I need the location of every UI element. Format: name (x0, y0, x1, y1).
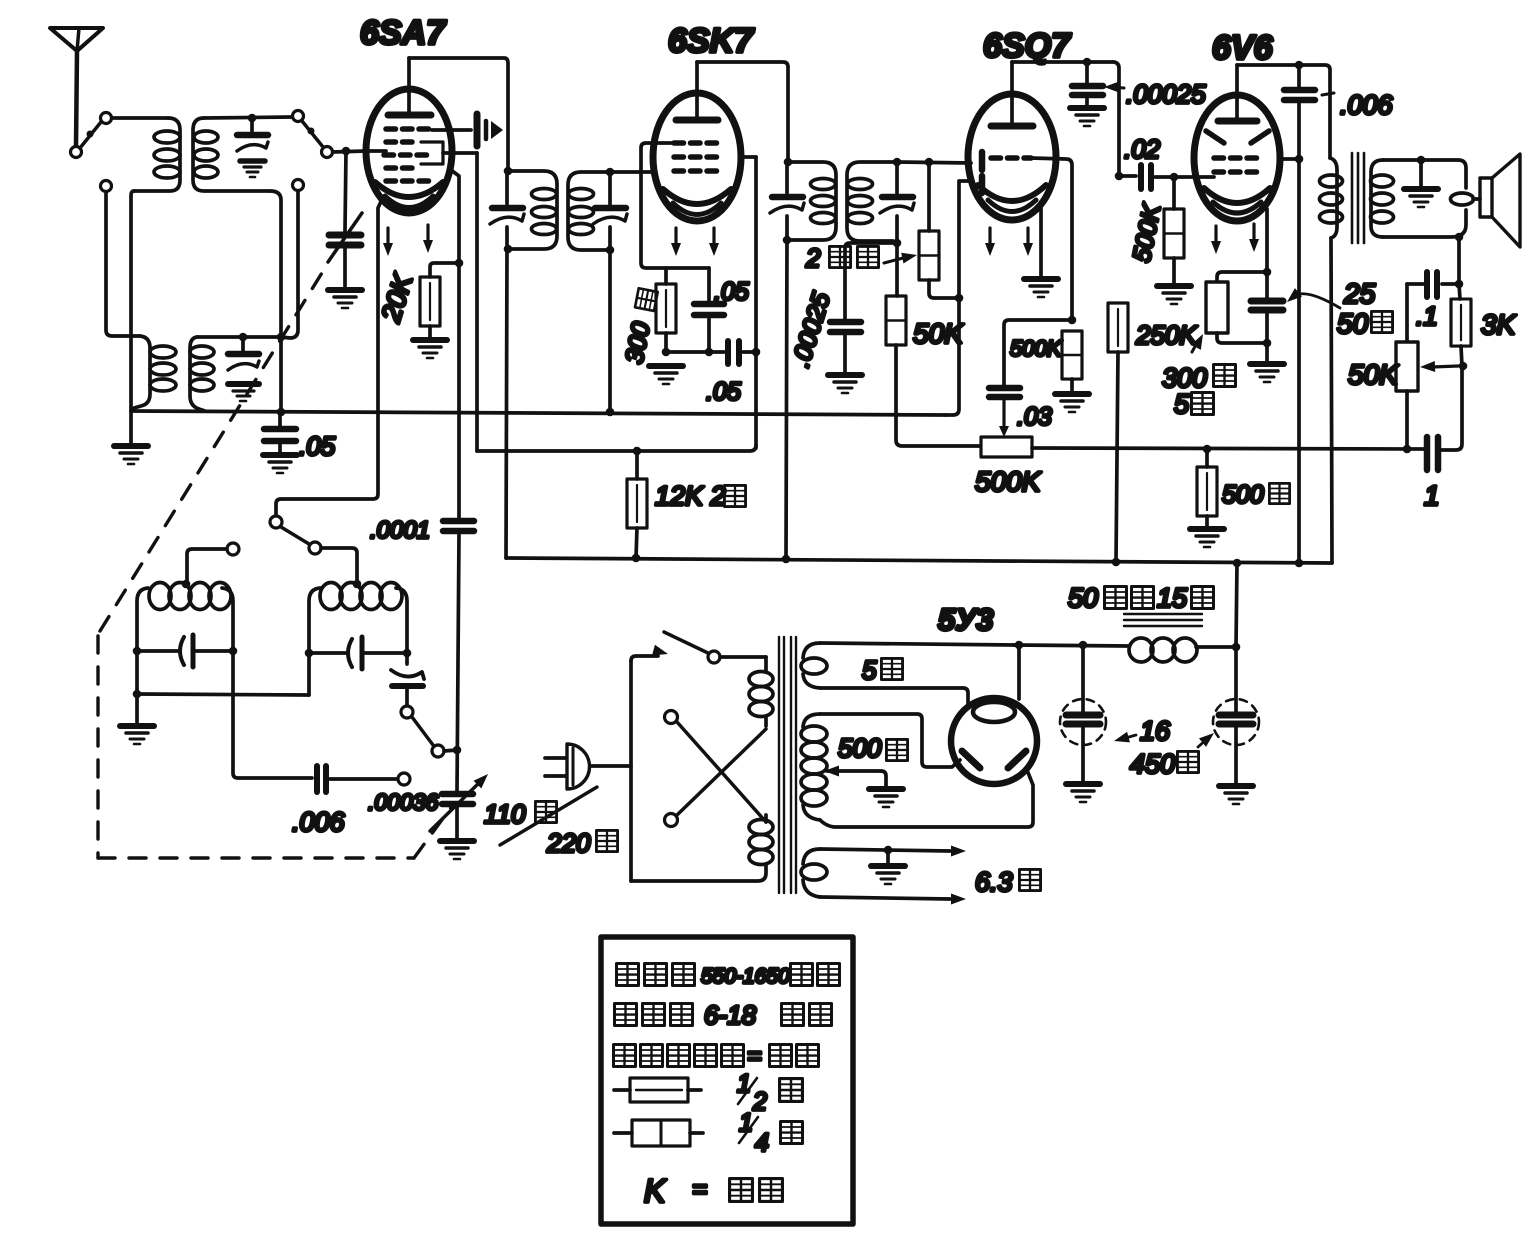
node grid junction (342, 147, 351, 156)
wire (455, 806, 459, 838)
resistor 500K grid leak (1062, 331, 1082, 379)
tube V4 cathode arcs (1204, 188, 1270, 213)
ground (328, 290, 362, 308)
label 110V (484, 799, 557, 829)
mains switch blade (664, 632, 708, 653)
capacitor 25uF/50V electrolytic (1251, 272, 1283, 343)
open contact (398, 773, 410, 785)
svg-text:.00025: .00025 (1126, 79, 1206, 109)
svg-text:2: 2 (752, 1088, 767, 1116)
wire to band contact (281, 191, 298, 338)
wire screen bus horizontal (477, 445, 756, 451)
node grid network junction (1068, 316, 1077, 325)
svg-text:450: 450 (1130, 749, 1175, 779)
variable capacitor MW osc tank (137, 635, 233, 667)
wire IF2 secondary to diode plate (897, 162, 971, 163)
capacitor .00025 RF filter (830, 322, 861, 372)
wire plate to IF1 (409, 58, 508, 171)
node IF1 primary bottom (504, 245, 513, 254)
node IF1 secondary bottom (606, 246, 615, 255)
wire IF1 secondary to 6SK7 grid (610, 170, 653, 174)
ground (1066, 784, 1100, 802)
svg-text:.05: .05 (714, 278, 749, 306)
tube V4 grid rows (1214, 158, 1260, 172)
svg-text:50K: 50K (1348, 359, 1399, 390)
IF2 primary trimmer capacitor (770, 162, 804, 240)
wire (1265, 343, 1269, 362)
wire to mains switch (631, 656, 658, 661)
node (1263, 268, 1272, 277)
wire (1461, 346, 1462, 366)
wire (1172, 258, 1176, 284)
wire (1459, 284, 1460, 299)
label 5V (862, 655, 903, 685)
wire 50K to volume pot (896, 345, 981, 446)
node 12K tap (633, 447, 642, 456)
oscillator switch MW contact (227, 543, 239, 555)
svg-text:.0001: .0001 (370, 517, 430, 544)
node (277, 333, 286, 342)
label 50mA 15H (1068, 583, 1214, 613)
band switch S1a blade (80, 122, 101, 148)
label 500 ohm (1222, 481, 1290, 509)
svg-text:50: 50 (1337, 308, 1369, 339)
ground (1157, 286, 1191, 304)
resistor 300 ohm (cathode) (656, 284, 676, 333)
mains switch pole (708, 651, 720, 663)
wire (444, 750, 457, 751)
wire (1070, 379, 1074, 392)
wire diode return to AVC bus (945, 298, 959, 415)
capacitor .05 AVC bypass (264, 412, 296, 453)
antenna terminal node (71, 147, 82, 158)
node (1015, 641, 1024, 650)
wire to SW osc coil (321, 548, 357, 582)
power transformer core (779, 637, 796, 893)
ground (440, 841, 474, 859)
tube V1 cathode arcs (375, 182, 443, 208)
svg-text:6SK7: 6SK7 (668, 22, 755, 60)
tube V1 grid lead (366, 149, 386, 153)
svg-text:550-1650: 550-1650 (701, 965, 790, 988)
wire plate top run (1012, 62, 1119, 176)
capacitor .03 coupling (989, 388, 1020, 437)
legend line 1: MW band 550-1650 kc (617, 964, 840, 989)
node (133, 690, 142, 699)
tube V3 cathode lead (1039, 207, 1043, 276)
node .02 tap (1115, 172, 1124, 181)
capacitor .02 coupling (1119, 165, 1194, 189)
wire oscillator switch pole lead (270, 516, 282, 528)
svg-text:500: 500 (1222, 481, 1264, 509)
antenna coil L2 secondary (SW) (190, 337, 214, 411)
svg-text:3K: 3K (1481, 309, 1517, 340)
node (1232, 643, 1241, 652)
output transformer secondary winding (1371, 160, 1394, 237)
wire SW secondary top (197, 335, 281, 339)
node (305, 649, 314, 658)
IF2 transformer primary winding (788, 162, 836, 240)
wire 300ohm top (664, 268, 668, 284)
voltage link X (665, 711, 767, 827)
wire (1205, 449, 1209, 467)
svg-text:500K: 500K (975, 466, 1042, 497)
tube V4 heater arrow (1211, 226, 1221, 254)
tube V4 beam plates (1206, 131, 1269, 143)
legend line 2: SW band 6-18 mc (615, 1000, 832, 1030)
tube V3 plate bar (991, 123, 1033, 130)
svg-text:250K: 250K (1135, 320, 1198, 350)
wire (720, 655, 766, 659)
resistor 50K (886, 296, 906, 345)
wire (1205, 516, 1209, 527)
trimmer capacitor SW osc (391, 653, 424, 706)
node (455, 259, 464, 268)
ground (1190, 529, 1224, 547)
output transformer core (1352, 153, 1364, 243)
capacitor .006 band pad (233, 651, 397, 792)
mains plug (545, 744, 631, 789)
node (1455, 233, 1464, 242)
tube V4 heater arrow (1249, 224, 1259, 252)
tube V2 cathode lead (641, 143, 709, 268)
terminal node (101, 181, 112, 192)
wire (106, 192, 140, 336)
wire 250K to B+ bus (1116, 352, 1118, 562)
tube V1 screen lead (443, 151, 477, 155)
legend quarter-watt resistor symbol (614, 1109, 803, 1157)
wire pot line right (1032, 448, 1424, 449)
node MW coil tap (182, 580, 191, 589)
ground (871, 850, 905, 884)
variable capacitor SW osc tank (309, 637, 407, 669)
IF2 secondary trimmer capacitor (880, 162, 914, 243)
wire plate to IF2 (697, 62, 788, 162)
mains switch arrow contact (652, 645, 669, 660)
ground (1070, 108, 1104, 126)
antenna (50, 28, 103, 146)
band switch S1b blade (302, 121, 323, 147)
ground (413, 340, 447, 358)
IF1 secondary trimmer capacitor (593, 172, 627, 250)
tube V3 plate lead (1010, 62, 1014, 124)
node (229, 647, 238, 656)
labels 300 ohm 5W (1162, 363, 1236, 419)
svg-text:.006: .006 (292, 807, 346, 837)
oscillator switch SW contact (309, 542, 321, 554)
oscillator coil L3 (MW) (137, 583, 233, 652)
potentiometer 500K volume (981, 437, 1032, 457)
potentiometer 50K feedback (1396, 284, 1458, 449)
wire (112, 116, 168, 120)
svg-text:.05: .05 (299, 431, 336, 461)
wire (636, 528, 637, 558)
node (453, 746, 462, 755)
tube V1 heater arrow (423, 225, 433, 253)
legend box (601, 937, 853, 1224)
label 2 Mohm with arrow (805, 243, 918, 273)
capacitor 16uF input electrolytic (1060, 645, 1106, 782)
wire to 20K (430, 263, 459, 277)
label .00025 rotated (787, 289, 836, 370)
label 20K (375, 270, 418, 327)
tube V4 grid lead (1194, 175, 1214, 179)
capacitor .00036 padder (430, 770, 492, 831)
node (1079, 641, 1088, 650)
speaker (1473, 154, 1520, 247)
svg-text:5: 5 (862, 655, 877, 685)
wire 12K to B+ (635, 451, 639, 479)
oscillator coil L4 (SW) (309, 583, 407, 696)
svg-text:.006: .006 (1340, 90, 1394, 120)
ground (828, 375, 862, 393)
wire secondary bottom (1383, 210, 1466, 237)
wire (428, 326, 432, 338)
node (248, 114, 257, 123)
tube V3 diode lead 2 (959, 181, 968, 297)
trimmer capacitor C1 (MW) (237, 118, 268, 177)
ground (1024, 279, 1058, 297)
resistor 500K 6V6 grid (1164, 209, 1184, 258)
wire to RF filter (845, 243, 897, 320)
svg-text:6SQ7: 6SQ7 (983, 27, 1072, 65)
node IF2 primary top (784, 158, 793, 167)
wire (457, 533, 459, 792)
tube V5 diode plates (962, 751, 1026, 768)
svg-text:.03: .03 (1017, 403, 1052, 431)
node (632, 554, 641, 563)
svg-text:300: 300 (620, 320, 655, 366)
node (662, 348, 671, 357)
resistor 12K 2W (627, 479, 647, 528)
svg-text:6-18: 6-18 (704, 1000, 757, 1030)
label 220V (546, 828, 618, 858)
tube V1 screen box (421, 142, 443, 164)
resistor 500 ohm (1197, 467, 1217, 516)
svg-text:500K: 500K (1128, 201, 1167, 265)
wire (1442, 366, 1462, 450)
ground (1219, 786, 1253, 804)
label 25 50V with curved arrow (1283, 278, 1392, 339)
tube V1 plate lead (407, 58, 411, 113)
node on AVC bus (606, 408, 615, 417)
capacitor .05 cathode bypass (694, 268, 724, 352)
svg-text:=: = (692, 1174, 707, 1204)
svg-text:6.3: 6.3 (975, 867, 1013, 897)
wire B+ output line (1014, 645, 1128, 646)
IF2 transformer secondary winding (847, 162, 897, 241)
svg-text:50: 50 (1068, 583, 1098, 613)
label .006 with dash (1322, 90, 1394, 120)
antenna coil L1 primary (MW) (134, 118, 180, 191)
wire (137, 694, 309, 695)
dashed gang link box (98, 268, 452, 858)
node IF1 primary top (504, 167, 513, 176)
wire cathode ground rail (666, 350, 709, 354)
tube V2 plate bar (676, 117, 718, 124)
node SW coil tap (353, 580, 362, 589)
resistor 20K (420, 277, 440, 326)
output transformer primary winding (1320, 158, 1343, 238)
wire to MW osc coil (187, 549, 227, 582)
node (1455, 280, 1464, 289)
wire screen to B+ bus (1297, 102, 1301, 563)
wire feedback from secondary (1457, 237, 1461, 284)
oscillator switch blade (281, 527, 309, 544)
wire to 50K (895, 243, 899, 296)
IF1 transformer secondary winding (568, 172, 610, 250)
node (1417, 156, 1426, 165)
capacitor .1 feedback (1407, 272, 1459, 297)
wire MW secondary top (204, 117, 292, 118)
svg-text:.00036: .00036 (368, 789, 439, 815)
node (1263, 339, 1272, 348)
capacitor 1 (bus end) (1427, 437, 1438, 470)
tube V2 heater arrow (709, 228, 719, 256)
wire plate top run (1237, 65, 1330, 158)
svg-text:25: 25 (1343, 278, 1376, 309)
wire common return (135, 651, 139, 694)
node (705, 348, 714, 357)
padder switch pole (432, 745, 444, 757)
svg-text:500K: 500K (1010, 336, 1063, 361)
svg-text:.05: .05 (706, 378, 741, 406)
tube V3 grid row (991, 155, 1031, 161)
label 12K 2W (655, 481, 746, 511)
capacitor .006 tone (1284, 65, 1315, 100)
band switch S1b pole (293, 111, 304, 122)
node .006 tap (1295, 61, 1304, 70)
resistor 300 ohm 5W cathode (1206, 282, 1228, 333)
wire oscillator grid lead (451, 170, 459, 519)
node (955, 294, 964, 303)
wire (1217, 272, 1267, 282)
svg-text:5У3: 5У3 (938, 602, 993, 637)
capacitor .00025 plate bypass (1072, 62, 1103, 106)
wire secondary top (1383, 160, 1466, 188)
svg-text:50K: 50K (913, 318, 964, 349)
ground (120, 694, 154, 744)
padder switch contact (401, 706, 413, 718)
variable capacitor C3 tuning (RF) (328, 151, 362, 286)
node (1295, 559, 1304, 568)
node IF2 primary bottom (783, 236, 792, 245)
wire screen vertical to screen bus (754, 157, 758, 448)
legend line 3: capacitor unit = uF (614, 1042, 819, 1070)
label .00025 with arrow (1104, 79, 1206, 109)
wire cathode lead to oscillator switch (276, 197, 383, 516)
wire (927, 162, 931, 231)
node (884, 846, 893, 855)
node (1083, 58, 1092, 67)
node IF1 secondary top (606, 168, 615, 177)
svg-text:500: 500 (838, 733, 882, 763)
power transformer primary lower section (631, 815, 773, 881)
wire OT primary to B+ bus (1331, 238, 1332, 563)
wire (131, 191, 134, 411)
wire (1419, 160, 1423, 186)
label 500K rotated (1128, 201, 1167, 265)
wire IF1 secondary to AVC bus (608, 250, 612, 412)
tube V2 screen lead (740, 155, 756, 159)
svg-text:12K 2: 12K 2 (655, 481, 726, 511)
node (1170, 173, 1179, 182)
tube V1 plate bar (388, 112, 431, 119)
svg-text:220: 220 (546, 828, 591, 858)
IF1 transformer primary winding (508, 171, 557, 249)
node (1112, 558, 1121, 567)
capacitor .0001 osc grid (443, 521, 474, 531)
trimmer capacitor C2 (SW) (228, 337, 259, 401)
svg-text:6SA7: 6SA7 (360, 14, 447, 52)
IF1 primary trimmer capacitor (490, 171, 524, 249)
heater winding 6.3V (801, 846, 966, 905)
legend K = kilohm (644, 1173, 782, 1209)
wire to 6SA7 grid (333, 151, 366, 152)
wire (1172, 177, 1176, 209)
capacitor .05 screen bypass (709, 341, 756, 364)
wire 2M bottom jog (929, 280, 959, 298)
node 500 ohm tap (1203, 445, 1212, 454)
tube V4 plate bar (1218, 118, 1257, 125)
capacitor 16uF output electrolytic (1213, 647, 1259, 784)
band switch S1a pole (101, 113, 112, 124)
node B+ feed (1233, 559, 1242, 568)
node (1459, 362, 1468, 371)
tube V4 cathode lead (1265, 209, 1269, 272)
band switch S1b selected contact (322, 147, 333, 158)
HV winding 500V (801, 714, 1033, 827)
svg-text:.02: .02 (1124, 134, 1161, 164)
padder switch blade (412, 717, 433, 745)
node 2M tap (925, 158, 934, 167)
antenna coil L1 secondary (MW) (193, 118, 270, 191)
resistor 3K (1451, 299, 1471, 346)
tube V5 5U3 envelope (951, 698, 1037, 784)
tube V2 plate lead (695, 62, 699, 118)
ground (263, 455, 297, 473)
label 500V (838, 733, 908, 763)
wire (1004, 320, 1072, 385)
tube V1 shield lead with grounded-cap arrow (432, 114, 503, 146)
wire MW secondary bottom (270, 191, 281, 411)
voltage selector slash (500, 787, 597, 845)
wire screen bus vertical (475, 153, 479, 451)
ground (1055, 394, 1089, 412)
HV center tap (824, 766, 903, 808)
tube V3 heater arrow (985, 228, 995, 256)
tube V3 cathode arcs (978, 185, 1046, 212)
label 16 450V with arrows (1113, 716, 1218, 779)
node (277, 408, 286, 417)
node detector junction (893, 239, 902, 248)
svg-text:5: 5 (1174, 389, 1190, 419)
svg-text:.1: .1 (1416, 301, 1438, 331)
tube V3 heater arrow (1023, 228, 1033, 256)
node (133, 647, 142, 656)
wire AVC bus (131, 411, 945, 415)
svg-text:16: 16 (1140, 716, 1171, 746)
wire filament leads to 5U3 (963, 645, 1019, 703)
tube V2 grid rows (674, 143, 719, 171)
tube V1 grid rows (384, 129, 431, 181)
svg-text:20K: 20K (375, 270, 418, 327)
node (1295, 155, 1304, 164)
node IF2 secondary top (893, 158, 902, 167)
speaker voice coil loop (1451, 193, 1474, 205)
resistor 250K plate load (1108, 303, 1128, 352)
tube V4 screen lead (1279, 157, 1299, 161)
